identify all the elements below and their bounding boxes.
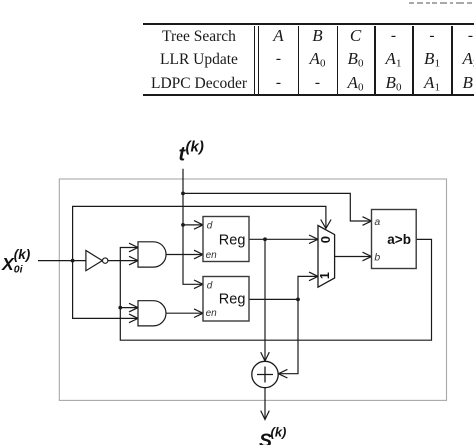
wire X down to lower AND input: [73, 261, 138, 319]
svg-text:a: a: [374, 216, 380, 228]
wire t branch to comparator input a: [183, 193, 372, 221]
register Reg2: [203, 277, 249, 322]
wire comparator feedback to AND enables: [120, 239, 431, 340]
wire t(k) vertical into Reg2 d: [183, 169, 203, 284]
junction feedback / lower AND: [118, 306, 122, 310]
inverter gate: [86, 251, 102, 271]
wire t branch to Reg1 d: [183, 224, 203, 226]
table row3 cells: - - A0 B0 A1 B1: [259, 73, 299, 93]
wire feedback branch to lower AND input: [120, 307, 138, 309]
wire AND2 output to Reg2 en: [166, 312, 203, 314]
arrowhead into comparator b: [363, 252, 372, 261]
junction X input: [71, 259, 75, 263]
wire inverter output to upper AND input: [108, 260, 138, 262]
junction t / feedback-a: [181, 192, 185, 196]
table top rule: [143, 23, 474, 25]
arrowhead into upper AND top input: [129, 243, 138, 252]
table vertical line B|C: [337, 26, 338, 95]
svg-text:b: b: [374, 252, 380, 264]
svg-text:0i: 0i: [14, 263, 24, 275]
wire X input: [38, 260, 86, 262]
wire adder output: [264, 388, 266, 420]
table double vertical line (right): [258, 26, 259, 95]
multiplexer: [318, 226, 335, 288]
AND gate lower: [138, 301, 166, 326]
arrowhead into mux select (down): [321, 220, 331, 229]
outer enclosure box: [59, 179, 446, 400]
svg-text:Reg: Reg: [219, 292, 246, 308]
arrowhead into lower AND bottom input: [129, 314, 138, 323]
table vertical line col4|col5: [412, 26, 414, 95]
svg-text:d: d: [207, 280, 213, 291]
wire X up to mux select: [73, 206, 326, 260]
svg-text:(k): (k): [271, 425, 287, 440]
arrowhead into comparator a: [363, 217, 372, 226]
arrowhead into mux input 1: [309, 272, 318, 281]
table double vertical line (left): [254, 26, 255, 95]
table vertical line C|col4: [374, 26, 376, 95]
arrowhead into Reg1 en: [194, 250, 203, 259]
wire Reg1 output branch down to adder: [264, 239, 266, 361]
table vertical line col5|col6: [451, 26, 453, 95]
table row2 cells: - A0 B0 A1 B1 A2: [259, 49, 299, 69]
junction Reg1 out / adder branch: [263, 237, 267, 241]
svg-text:en: en: [206, 250, 218, 261]
svg-text:(k): (k): [14, 247, 31, 262]
svg-text:en: en: [206, 308, 218, 319]
adder: [252, 361, 278, 387]
junction t / Reg1 d: [181, 223, 185, 227]
arrowhead into adder top (down): [261, 352, 270, 361]
wire mux output to comparator input b: [335, 256, 372, 258]
wire Reg2 branch up to mux input 1: [298, 276, 318, 299]
table vertical line A|B: [298, 26, 299, 95]
svg-text:1: 1: [318, 272, 332, 279]
table row label: LDPC Decoder: [143, 74, 255, 94]
wire Reg2 output: [249, 298, 298, 300]
table row1 cells: A B C - - -: [259, 26, 299, 46]
wire AND1 output to Reg1 en: [166, 254, 203, 256]
svg-text:0: 0: [318, 236, 333, 243]
svg-text:(k): (k): [186, 139, 204, 156]
register Reg1: [203, 217, 249, 262]
comparator a>b: [372, 210, 417, 269]
table row label: LLR Update: [143, 50, 255, 70]
label X0i(k): [1, 247, 31, 276]
wire Reg1 output to mux input 0: [249, 238, 318, 240]
arrowhead into Reg2 en: [194, 309, 203, 318]
inverter bubble: [103, 258, 108, 263]
faint cropped gray caption fragment (top-right): [409, 2, 414, 4]
AND gate upper: [138, 242, 166, 267]
arrowhead into Reg2 d: [194, 280, 203, 289]
svg-text:a>b: a>b: [387, 232, 411, 247]
arrowhead into upper AND bottom input: [129, 256, 138, 265]
junction Reg2 out branch: [296, 298, 300, 302]
arrowhead into mux input 0: [309, 235, 318, 244]
svg-text:d: d: [207, 221, 213, 232]
label t(k): [179, 139, 204, 166]
adder plus sign: [257, 367, 273, 383]
arrowhead into Reg1 d: [194, 221, 203, 230]
arrowhead into adder right (left): [278, 369, 287, 378]
table row label: Tree Search: [143, 27, 255, 47]
wire Reg2 branch down to adder right input: [278, 299, 298, 373]
svg-text:Reg: Reg: [219, 232, 246, 248]
table bottom rule: [143, 94, 474, 96]
arrowhead into lower AND top input: [129, 303, 138, 312]
label S(k): [259, 425, 286, 445]
arrowhead adder output (down): [261, 411, 270, 420]
